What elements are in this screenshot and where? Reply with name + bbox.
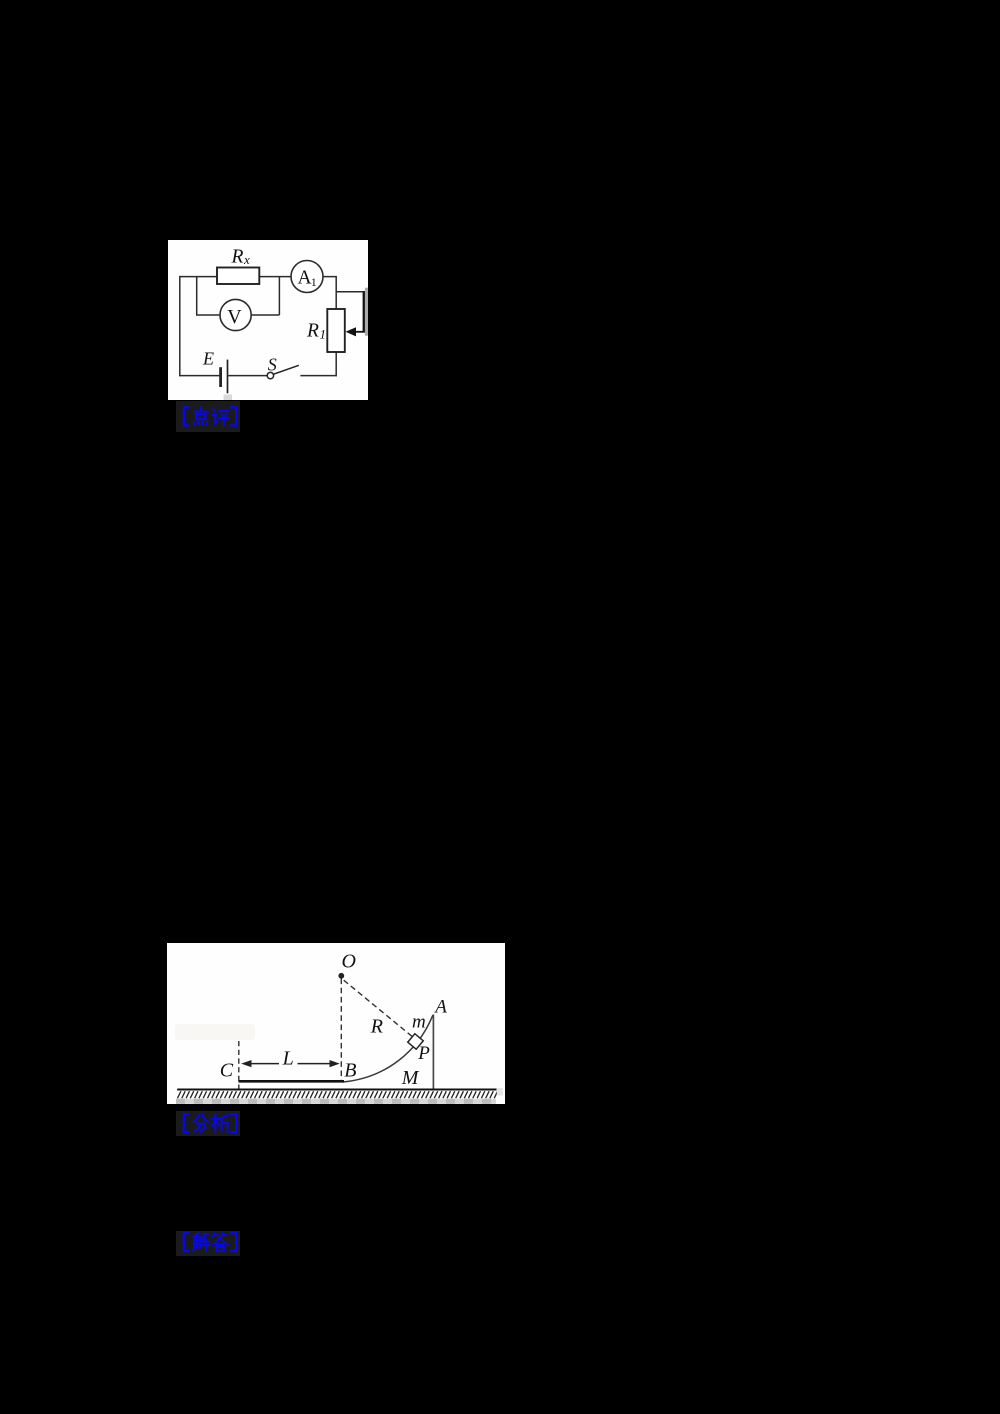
track line C to B: [239, 1080, 345, 1083]
svg-text:R: R: [370, 1015, 383, 1037]
bracket right: [231, 407, 236, 425]
block m on ramp (rotated square): [408, 1034, 423, 1049]
FIGURE1 (circuit): [168, 240, 368, 400]
arrow L left segment: [244, 1063, 280, 1065]
wiper bracket vertical (thick): [363, 291, 366, 332]
bracket left: [184, 407, 189, 425]
wire: voltmeter branch left vertical: [196, 277, 198, 315]
blue label 3: [176, 1231, 240, 1256]
voltmeter V: [220, 299, 251, 330]
wire: voltmeter branch left horizontal: [196, 314, 220, 316]
battery E short plate: [219, 367, 222, 387]
resistor Rx: [217, 268, 259, 285]
svg-text:1: 1: [311, 275, 317, 289]
blue label 1: [176, 401, 240, 432]
wire: ammeter right to corner and down to rheostat: [323, 277, 336, 309]
arrowhead right: [330, 1060, 340, 1067]
rheostat R1 (slide resistor): [327, 309, 345, 352]
svg-text:L: L: [282, 1048, 294, 1070]
svg-text:E: E: [202, 349, 214, 369]
gray patch right of ground: [497, 1088, 503, 1096]
wire: switch to right corner: [300, 375, 337, 377]
FIGURE2 (mechanics): [167, 943, 505, 1104]
dashed vertical OB: [340, 979, 342, 1082]
ground line: [177, 1089, 496, 1091]
bracket left: [184, 1233, 189, 1251]
gray square under battery: [224, 395, 233, 401]
char xi: [211, 1114, 228, 1132]
arrow L right segment: [298, 1063, 337, 1065]
arrowhead left: [241, 1060, 251, 1067]
bracket left: [184, 1114, 189, 1132]
wiper arrowhead: [346, 327, 357, 336]
wire: voltmeter branch right horizontal: [251, 314, 279, 316]
char dian: [194, 407, 208, 425]
svg-text:C: C: [220, 1059, 234, 1081]
wire: top-left horizontal (battery+ to Rx): [180, 276, 217, 278]
char fen: [193, 1115, 208, 1133]
char jie: [193, 1233, 210, 1251]
node O dot: [338, 973, 344, 979]
svg-text:V: V: [227, 306, 242, 328]
svg-text:P: P: [417, 1043, 430, 1064]
curved ramp arc B to A: [343, 1015, 433, 1082]
svg-text:A: A: [298, 268, 312, 289]
svg-text:R: R: [231, 247, 244, 268]
dashed radius O to P: [344, 980, 413, 1036]
svg-text:M: M: [401, 1067, 420, 1089]
wire: left vertical: [179, 276, 181, 376]
wire: bottom from left corner to battery: [179, 375, 219, 377]
gray checker strip under ground: [176, 1099, 496, 1104]
dashed vertical at C: [238, 1041, 240, 1089]
blue label 2: [176, 1111, 240, 1136]
wiper arrow line: [355, 331, 366, 333]
bracket right: [231, 1233, 236, 1251]
svg-text:B: B: [344, 1059, 356, 1081]
svg-text:O: O: [342, 951, 356, 973]
svg-text:R: R: [306, 321, 319, 342]
faint watermark: [175, 1024, 255, 1040]
wire: rheostat bottom vertical: [335, 352, 337, 376]
wire: wiper bracket top horizontal: [336, 291, 364, 293]
svg-text:1: 1: [320, 327, 327, 342]
char da: [212, 1233, 228, 1251]
switch S blade: [274, 365, 299, 374]
char ping: [212, 409, 229, 426]
svg-text:m: m: [412, 1012, 426, 1033]
ground hatching: [178, 1091, 498, 1098]
wire: voltmeter branch right vertical: [278, 277, 280, 315]
svg-text:x: x: [243, 252, 250, 267]
gray bar right edge: [365, 288, 368, 336]
svg-text:S: S: [268, 354, 277, 374]
wall line below A: [432, 1015, 434, 1090]
svg-text:A: A: [433, 996, 447, 1017]
wire: battery to switch: [228, 375, 267, 377]
battery E long plate: [227, 360, 229, 394]
ammeter A1: [291, 261, 323, 293]
wire: Rx right to ammeter: [259, 276, 291, 278]
bracket right: [231, 1114, 236, 1132]
switch S contact circle: [267, 372, 273, 378]
